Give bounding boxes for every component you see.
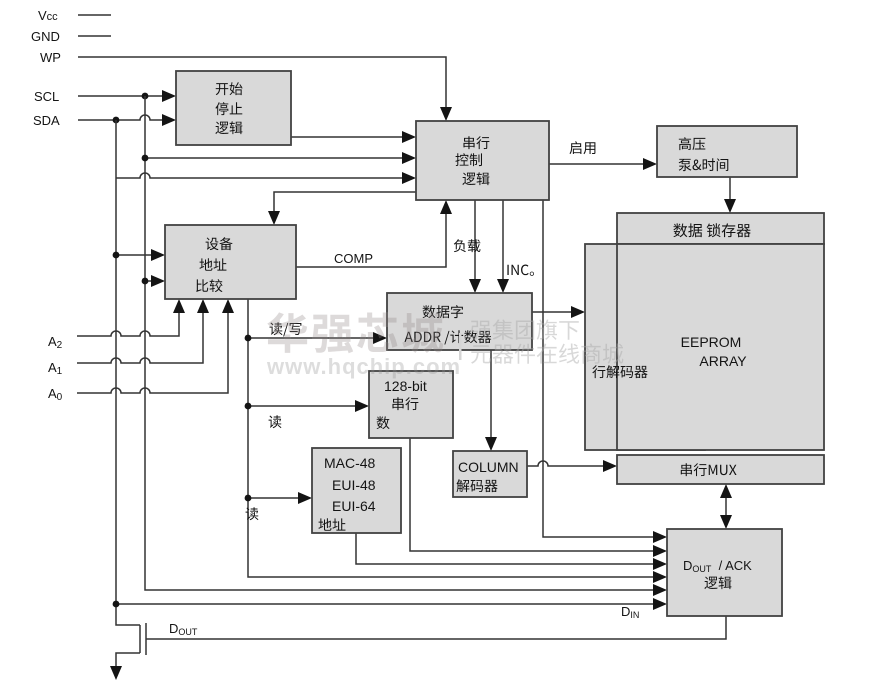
- arrowhead A2 up: [173, 299, 185, 313]
- block serial MUX: [617, 455, 824, 484]
- wire column decoder to serial MUX with hop: [527, 461, 605, 466]
- node dot SCL at compare: [142, 278, 149, 285]
- node SCL branch dot: [142, 155, 149, 162]
- block data latch: [617, 213, 824, 244]
- ground arrow: [110, 666, 122, 680]
- svg-text:www.hqchip.com: www.hqchip.com: [266, 354, 461, 379]
- arrowhead 128-bit into Dout/ACK: [653, 545, 667, 557]
- wire SCL branch to serial control: [145, 157, 404, 159]
- wire SCL branch into device address compare: [145, 280, 153, 282]
- wire GND stub: [78, 35, 111, 37]
- arrowhead MAC into Dout/ACK: [653, 558, 667, 570]
- arrowhead into row decoder: [571, 306, 585, 318]
- wire data word to column decoder: [490, 350, 492, 439]
- wire bidirectional MUX to Dout/ACK: [725, 496, 727, 518]
- arrowhead COMP up into serial control: [440, 200, 452, 214]
- arrowhead load down: [469, 279, 481, 293]
- label read net 1: [269, 415, 282, 428]
- watermark divider: [459, 333, 462, 360]
- node dot Din on SDA rail: [113, 601, 120, 608]
- svg-text:GND: GND: [31, 29, 60, 44]
- block serial control logic U1: [416, 121, 549, 200]
- block high voltage pump and timing: [657, 126, 797, 177]
- wire serial control to device address compare top: [274, 192, 416, 213]
- arrowhead into column decoder: [485, 437, 497, 451]
- block EEPROM array: [617, 244, 824, 450]
- svg-text:MAC-48: MAC-48: [324, 455, 376, 471]
- watermark slogan line 2: [471, 343, 623, 363]
- wire MAC block down to Dout/ACK: [356, 533, 655, 564]
- node dot read/write: [245, 335, 252, 342]
- svg-text:SCL: SCL: [34, 89, 59, 104]
- arrowhead into device compare 1: [151, 249, 165, 261]
- arrowhead SCL right: [162, 90, 176, 102]
- node dot read 2: [245, 495, 252, 502]
- arrowhead A1 up: [197, 299, 209, 313]
- svg-text:SDA: SDA: [33, 113, 60, 128]
- label row decoder name: [592, 365, 647, 378]
- svg-text:EUI-48: EUI-48: [332, 477, 376, 493]
- block column decoder: [453, 451, 527, 497]
- svg-text:WP: WP: [40, 50, 61, 65]
- arrowhead up into serial MUX bottom: [720, 484, 732, 498]
- label load net: [454, 239, 481, 252]
- block 128-bit serial number: [369, 371, 453, 438]
- arrowhead SDA right: [162, 114, 176, 126]
- arrowhead enable: [643, 158, 657, 170]
- node SDA junction dot: [113, 117, 120, 124]
- wire SDA branch to serial control with hop: [116, 173, 404, 178]
- arrowhead SCL rail into Dout/ACK: [653, 584, 667, 596]
- wire INC to data word: [502, 200, 504, 281]
- wire A2 line with hops: [77, 312, 179, 336]
- wire Dout net from logic to transistor gate: [146, 616, 726, 639]
- node dot SDA at compare: [113, 252, 120, 259]
- svg-text:EUI-64: EUI-64: [332, 498, 376, 514]
- wire pump to data latch: [729, 177, 731, 201]
- svg-text:ARRAY: ARRAY: [699, 353, 747, 369]
- wire device compare bottom rail down to Dout/ACK: [248, 299, 655, 577]
- watermark slogan line 1: [471, 319, 579, 339]
- node dot read 1: [245, 403, 252, 410]
- arrowhead read/write: [373, 332, 387, 344]
- block device address compare: [165, 225, 296, 299]
- block start/stop logic: [176, 71, 291, 145]
- label INC net: [507, 265, 534, 276]
- arrowhead into serial control 1: [402, 131, 416, 143]
- wire SCL vertical rail down to Dout/ACK logic: [145, 96, 655, 590]
- wire Q1 source to ground arrow: [116, 653, 140, 668]
- block data word address counter: [387, 293, 532, 350]
- wire SDA branch into device address compare: [116, 254, 153, 256]
- wire SDA into start/stop logic with hop over SCL rail: [78, 115, 165, 120]
- svg-text:EEPROM: EEPROM: [681, 334, 742, 350]
- wire data word to row decoder: [532, 311, 573, 313]
- arrowhead WP down into U-serial-control: [440, 107, 452, 121]
- arrowhead into device compare 2: [151, 275, 165, 287]
- wire read to MAC address block: [248, 497, 300, 499]
- label enable net: [570, 141, 596, 154]
- arrowhead A0 up: [222, 299, 234, 313]
- wire Din from SDA rail to Dout/ACK: [116, 603, 655, 605]
- svg-text:COMP: COMP: [334, 251, 373, 266]
- label read net 2: [246, 507, 259, 520]
- wire SCL into start/stop logic: [78, 95, 165, 97]
- wire COMP feedback: [296, 213, 446, 267]
- arrowhead into serial MUX: [603, 460, 617, 472]
- transistor Q1 gate bar: [145, 623, 147, 655]
- arrowhead Din into Dout/ACK: [653, 598, 667, 610]
- arrowhead control rail into Dout/ACK: [653, 531, 667, 543]
- svg-text:Vcc: Vcc: [38, 8, 58, 23]
- svg-text:COLUMN: COLUMN: [458, 459, 519, 475]
- wire A0 line with hops: [77, 312, 228, 393]
- wire read/write to data word addr counter: [248, 337, 375, 339]
- wire Vcc stub: [78, 14, 111, 16]
- block MAC EUI address: [312, 448, 401, 533]
- wire SDA vertical rail down to output transistor drain: [116, 120, 140, 625]
- node SCL junction dot: [142, 93, 149, 100]
- arrowhead into data latch: [724, 199, 736, 213]
- wire 128-bit block down to Dout/ACK: [410, 438, 655, 551]
- wire A1 line with hops: [77, 312, 203, 363]
- block Dout ACK logic: [667, 529, 782, 616]
- wire read to 128-bit serial: [248, 405, 357, 407]
- wire load to data word: [474, 200, 476, 281]
- arrowhead INC down: [497, 279, 509, 293]
- arrowhead read 1: [355, 400, 369, 412]
- arrowhead read 2: [298, 492, 312, 504]
- svg-text:128-bit: 128-bit: [384, 378, 427, 394]
- wire start/stop output to serial control: [291, 136, 404, 138]
- arrowhead down into device address compare: [268, 211, 280, 225]
- arrowhead into serial control 3: [402, 172, 416, 184]
- wire WP line to serial control top: [78, 57, 446, 110]
- arrowhead into serial control 2: [402, 152, 416, 164]
- wire enable to high voltage pump: [549, 163, 645, 165]
- transistor Q1 channel bar: [139, 625, 141, 653]
- arrowhead compare rail into Dout/ACK: [653, 571, 667, 583]
- watermark logo text: [267, 312, 443, 353]
- label read/write net: [270, 322, 302, 336]
- block row decoder: [585, 244, 705, 450]
- wire serial control rail down to Dout/ACK: [543, 200, 655, 537]
- arrowhead down into Dout/ACK top: [720, 515, 732, 529]
